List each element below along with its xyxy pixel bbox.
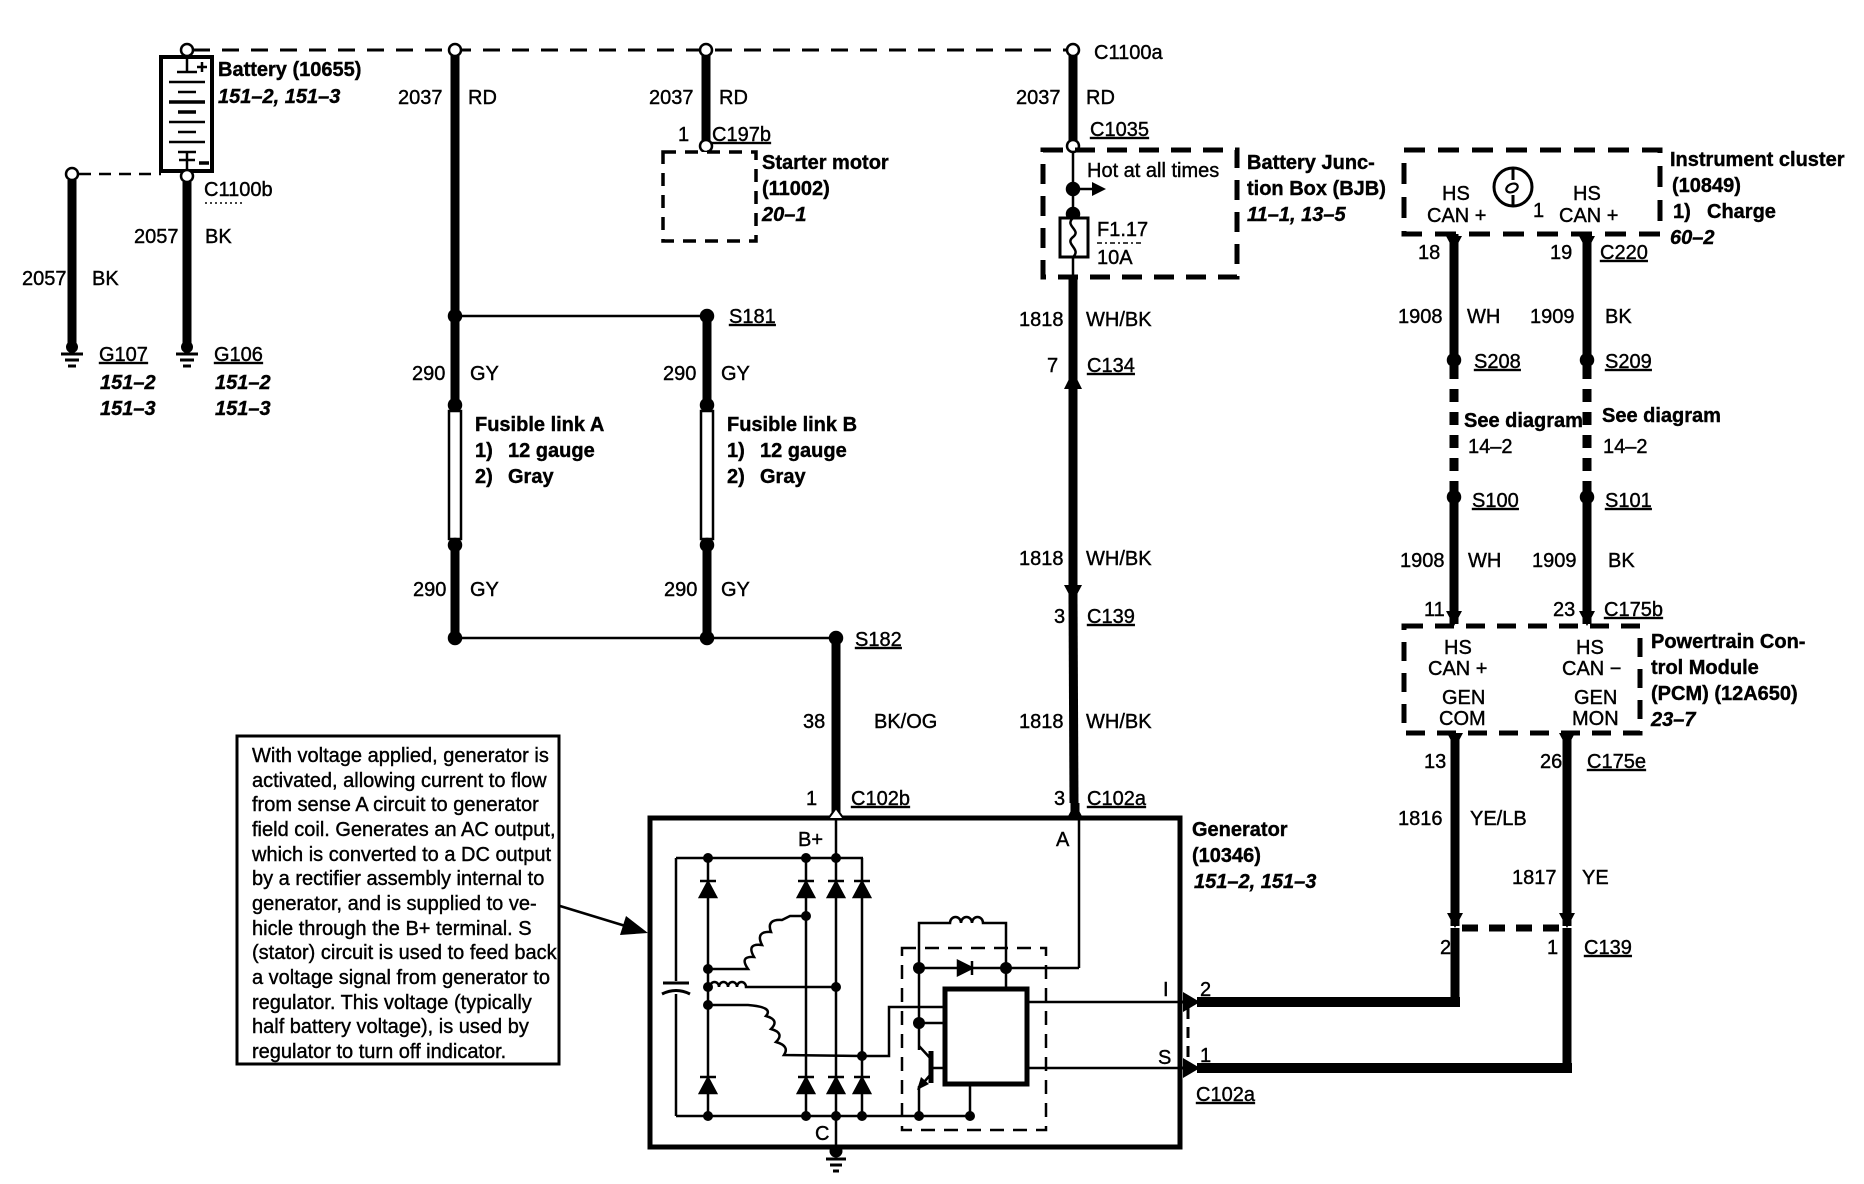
svg-text:C134: C134 — [1087, 355, 1135, 377]
svg-text:1: 1 — [1533, 200, 1544, 222]
stator winding upper phase — [708, 916, 806, 969]
rectifier diodes bottom row — [700, 1077, 870, 1093]
svg-text:regulator to turn off indicato: regulator to turn off indicator. — [252, 1041, 506, 1063]
svg-text:YE: YE — [1582, 867, 1609, 889]
node: field coil right dot — [1000, 962, 1012, 974]
svg-text:S100: S100 — [1472, 490, 1519, 512]
rectifier diodes top row — [700, 881, 870, 897]
wire: battery positive dashed bus — [193, 49, 1067, 52]
svg-text:151–3: 151–3 — [100, 398, 156, 420]
wire: hot at all times arrow — [1073, 188, 1093, 191]
svg-text:HS: HS — [1444, 637, 1472, 659]
diode column 1 — [707, 858, 710, 1116]
svg-text:10A: 10A — [1097, 247, 1133, 269]
wire: emitter to ground rail — [918, 1086, 921, 1116]
svg-text:hicle through the B+ terminal.: hicle through the B+ terminal. S — [252, 918, 532, 940]
svg-text:Battery Junc-: Battery Junc- — [1247, 152, 1375, 174]
svg-text:G106: G106 — [214, 344, 263, 366]
svg-text:19: 19 — [1550, 242, 1572, 264]
svg-text:I: I — [1163, 979, 1169, 1001]
wire: dashed off-page segment below S208 — [1450, 366, 1459, 492]
svg-text:GY: GY — [470, 363, 499, 385]
svg-text:YE/LB: YE/LB — [1470, 808, 1527, 830]
svg-text:14–2: 14–2 — [1468, 436, 1513, 458]
svg-text:See diagram: See diagram — [1464, 410, 1583, 432]
svg-text:151–2, 151–3: 151–2, 151–3 — [218, 86, 340, 108]
svg-text:1): 1) — [727, 440, 745, 462]
wire: BJB internal feed — [1072, 151, 1075, 218]
svg-text:GEN: GEN — [1442, 687, 1485, 709]
wire 1818 WH/BK (C139 to C102a) — [1073, 601, 1074, 803]
wire: tap into regulator left — [919, 1022, 945, 1025]
svg-text:12 gauge: 12 gauge — [508, 440, 595, 462]
wire 38 BK/OG to generator B+ — [832, 638, 841, 814]
fusible link A element — [449, 411, 461, 539]
svg-text:field coil. Generates an AC ou: field coil. Generates an AC output, — [252, 819, 556, 841]
wire: splice link S181 — [455, 315, 707, 318]
node: field coil left dot — [913, 962, 925, 974]
wire 1908 WH to PCM pin 11 — [1450, 497, 1459, 624]
svg-text:(11002): (11002) — [762, 178, 830, 200]
wire: C139 pin 1 down to S wire — [1563, 928, 1572, 1073]
wire: dashed link from left ground wire to battery negative — [79, 173, 161, 176]
svg-text:C102b: C102b — [851, 788, 910, 810]
svg-text:20–1: 20–1 — [761, 204, 807, 226]
node: battery negative terminal circle C1100b — [181, 170, 193, 182]
ground G107 — [61, 343, 83, 367]
wire: regulator ground leg — [969, 1084, 972, 1116]
svg-text:which is converted to a DC out: which is converted to a DC output — [251, 844, 551, 866]
svg-text:Instrument cluster: Instrument cluster — [1670, 149, 1845, 171]
svg-text:1818: 1818 — [1019, 548, 1064, 570]
wire: A sense line — [1078, 818, 1081, 968]
node: S182 splice left junction — [449, 632, 461, 644]
diode column 2 — [805, 858, 808, 1116]
svg-text:WH/BK: WH/BK — [1086, 548, 1152, 570]
svg-text:2): 2) — [475, 466, 493, 488]
node: connector C1035 circle — [1067, 140, 1079, 152]
wire 290 GY lower left — [451, 545, 460, 638]
svg-text:C1035: C1035 — [1090, 119, 1149, 141]
svg-text:1): 1) — [475, 440, 493, 462]
svg-text:C1100a: C1100a — [1094, 42, 1163, 64]
note box — [237, 736, 559, 1064]
svg-text:151–3: 151–3 — [215, 398, 271, 420]
svg-text:Fusible link B: Fusible link B — [727, 414, 857, 436]
connector C139 dashed line — [1462, 925, 1562, 932]
svg-text:Fusible link A: Fusible link A — [475, 414, 604, 436]
node: fusible link B bottom junction — [701, 539, 713, 551]
node: fuse top dot — [1067, 208, 1079, 220]
svg-text:RD: RD — [1086, 87, 1115, 109]
svg-text:1: 1 — [1200, 1045, 1211, 1067]
node: tap circle for starter feed wire — [449, 44, 461, 56]
svg-text:A: A — [1056, 829, 1070, 851]
svg-text:WH/BK: WH/BK — [1086, 711, 1152, 733]
wire: generator I terminal to C139 pin 2 — [1180, 1001, 1198, 1004]
wire: rectifier bottom rail — [676, 1115, 970, 1118]
battery junction box (BJB) dashed outline — [1043, 150, 1237, 277]
svg-text:290: 290 — [413, 579, 446, 601]
svg-text:GEN: GEN — [1574, 687, 1617, 709]
node: tap circle for starter motor branch — [700, 44, 712, 56]
wire: stator tap to regulator (S feedback) — [862, 1007, 945, 1056]
svg-text:HS: HS — [1576, 637, 1604, 659]
svg-text:GY: GY — [721, 579, 750, 601]
connector C102b entry notch at B+ — [828, 808, 844, 819]
svg-text:CAN −: CAN − — [1562, 658, 1621, 680]
svg-text:Hot at all times: Hot at all times — [1087, 160, 1219, 182]
svg-text:3: 3 — [1054, 606, 1065, 628]
svg-text:Battery (10655): Battery (10655) — [218, 59, 361, 81]
ground: generator case C terminal — [826, 1146, 846, 1171]
svg-text:151–2: 151–2 — [100, 372, 156, 394]
node: fusible link A bottom junction — [449, 539, 461, 551]
fusible link B element — [701, 411, 713, 539]
svg-text:CAN +: CAN + — [1559, 205, 1618, 227]
svg-text:BK: BK — [1605, 306, 1632, 328]
svg-text:MON: MON — [1572, 708, 1619, 730]
svg-text:S101: S101 — [1605, 490, 1652, 512]
svg-text:S208: S208 — [1474, 351, 1521, 373]
svg-text:38: 38 — [803, 711, 825, 733]
wire 1818 WH/BK (C134 to C139) — [1069, 388, 1078, 601]
svg-text:WH: WH — [1468, 550, 1501, 572]
svg-text:2037: 2037 — [649, 87, 694, 109]
field coil — [919, 917, 1006, 968]
wire: fuse to BJB bottom — [1072, 257, 1075, 277]
svg-text:2): 2) — [727, 466, 745, 488]
svg-text:290: 290 — [412, 363, 445, 385]
svg-text:GY: GY — [470, 579, 499, 601]
node C1100a circle — [1067, 44, 1079, 56]
wire: splice link S182 — [455, 637, 836, 640]
connector C102a arrowhead pin 3 — [1066, 803, 1084, 820]
svg-text:(stator) circuit is used to fe: (stator) circuit is used to feed back — [252, 942, 558, 964]
diode column 4 — [861, 858, 864, 1116]
wire 1817 YE from PCM pin 26 (C175e) — [1559, 733, 1575, 748]
wire 290 GY upper right — [703, 318, 712, 404]
voltage regulator box — [945, 989, 1027, 1084]
capacitor branch — [675, 858, 678, 981]
wire: regulator I output to edge — [1027, 1001, 1180, 1004]
node S101 — [1581, 491, 1593, 503]
svg-text:half battery voltage), is used: half battery voltage), is used by — [252, 1016, 529, 1038]
wire 1909 BK to PCM pin 23 (C175b) — [1583, 497, 1592, 624]
svg-text:23: 23 — [1553, 599, 1575, 621]
fuse F1.17 10A — [1060, 218, 1088, 257]
svg-text:S209: S209 — [1605, 351, 1652, 373]
node: connector C197b circle pin 1 — [700, 140, 712, 152]
svg-text:290: 290 — [664, 579, 697, 601]
svg-text:BK: BK — [205, 226, 232, 248]
powertrain control module (PCM) dashed box — [1404, 626, 1640, 733]
svg-text:290: 290 — [663, 363, 696, 385]
svg-text:CAN +: CAN + — [1428, 658, 1487, 680]
svg-text:1908: 1908 — [1398, 306, 1443, 328]
wire 1909 BK cluster pin 19 — [1579, 236, 1595, 251]
svg-text:18: 18 — [1418, 242, 1440, 264]
node S100 — [1448, 491, 1460, 503]
svg-text:23–7: 23–7 — [1650, 709, 1696, 731]
node: battery positive terminal circle — [181, 44, 193, 56]
svg-text:BK/OG: BK/OG — [874, 711, 937, 733]
svg-text:BK: BK — [92, 268, 119, 290]
svg-text:2037: 2037 — [398, 87, 443, 109]
svg-text:151–2, 151–3: 151–2, 151–3 — [1194, 871, 1316, 893]
svg-text:by a rectifier assembly intern: by a rectifier assembly internal to — [252, 868, 544, 890]
svg-text:trol Module: trol Module — [1651, 657, 1759, 679]
svg-text:C102a: C102a — [1196, 1084, 1256, 1106]
svg-text:2037: 2037 — [1016, 87, 1061, 109]
svg-text:2: 2 — [1200, 979, 1211, 1001]
node S181 junction — [449, 310, 461, 322]
svg-text:3: 3 — [1054, 788, 1065, 810]
svg-text:(10346): (10346) — [1192, 845, 1261, 867]
wire 2057 BK to G107 — [68, 180, 77, 344]
wire 2037 RD to BJB (C1100a/C1035) — [1069, 55, 1078, 141]
connector C139 arrowhead pin 3 — [1064, 585, 1082, 602]
wire 290 GY lower right — [703, 545, 712, 638]
svg-text:Charge: Charge — [1707, 201, 1776, 223]
generator (10346) box — [650, 818, 1180, 1147]
svg-text:Generator: Generator — [1192, 819, 1288, 841]
svg-text:COM: COM — [1439, 708, 1486, 730]
transistor Q (field driver) — [929, 1051, 934, 1083]
svg-text:B+: B+ — [798, 829, 823, 851]
ground G106 — [176, 343, 198, 367]
svg-text:14–2: 14–2 — [1603, 436, 1648, 458]
wire: regulator S line to edge — [1027, 1067, 1180, 1070]
wire 2037 RD to starter motor — [702, 55, 711, 141]
svg-text:7: 7 — [1047, 355, 1058, 377]
svg-text:C175b: C175b — [1604, 599, 1663, 621]
battery (10655) symbol — [161, 57, 212, 171]
svg-text:1: 1 — [1547, 937, 1558, 959]
svg-text:1908: 1908 — [1400, 550, 1445, 572]
node: fusible link B top junction — [701, 399, 713, 411]
instrument cluster (10849) dashed box — [1404, 150, 1660, 234]
svg-text:With voltage applied, generato: With voltage applied, generator is — [252, 745, 549, 767]
voltage regulator dashed box — [902, 948, 1046, 1130]
svg-text:BK: BK — [1608, 550, 1635, 572]
wire 1908 WH cluster pin 18 — [1446, 236, 1462, 251]
svg-text:RD: RD — [719, 87, 748, 109]
svg-text:26: 26 — [1540, 751, 1562, 773]
connector C102a dashed boundary at generator edge — [1187, 1008, 1190, 1062]
svg-text:(PCM) (12A650): (PCM) (12A650) — [1651, 683, 1798, 705]
svg-text:G107: G107 — [99, 344, 148, 366]
svg-text:HS: HS — [1573, 183, 1601, 205]
svg-text:GY: GY — [721, 363, 750, 385]
node: fusible link A top junction — [449, 399, 461, 411]
note arrow to generator — [560, 906, 632, 928]
svg-text:WH: WH — [1467, 306, 1500, 328]
node S209 — [1581, 354, 1593, 366]
svg-text:C175e: C175e — [1587, 751, 1646, 773]
node: left ground branch top circle — [66, 168, 78, 180]
indicator lamp: charge — [1494, 167, 1532, 207]
svg-text:1: 1 — [678, 124, 689, 146]
node S182 — [830, 632, 842, 644]
svg-text:13: 13 — [1424, 751, 1446, 773]
node S208 — [1448, 354, 1460, 366]
svg-text:1816: 1816 — [1398, 808, 1443, 830]
svg-text:1818: 1818 — [1019, 711, 1064, 733]
svg-text:1909: 1909 — [1530, 306, 1575, 328]
svg-text:1: 1 — [806, 788, 817, 810]
wire: into generator A terminal — [1071, 803, 1080, 818]
wire: rectifier top rail — [676, 857, 863, 860]
svg-text:RD: RD — [468, 87, 497, 109]
node: hot-at-all-times tap dot — [1067, 183, 1079, 195]
svg-text:See diagram: See diagram — [1602, 405, 1721, 427]
svg-text:2: 2 — [1440, 937, 1451, 959]
wire: generator S terminal to C139 pin 1 — [1180, 1067, 1198, 1070]
svg-text:C: C — [815, 1123, 829, 1145]
svg-text:generator, and is supplied to: generator, and is supplied to ve- — [252, 893, 537, 915]
wire: B+ internal bus — [835, 819, 838, 1147]
note: generator description text — [251, 745, 558, 1063]
wire 1818 WH/BK (BJB to C134) — [1069, 277, 1078, 388]
svg-text:(10849): (10849) — [1672, 175, 1741, 197]
svg-text:Gray: Gray — [760, 466, 806, 488]
svg-text:HS: HS — [1442, 183, 1470, 205]
svg-text:activated, allowing current to: activated, allowing current to flow — [252, 770, 547, 792]
svg-text:tion Box (BJB): tion Box (BJB) — [1247, 178, 1386, 200]
svg-text:1909: 1909 — [1532, 550, 1577, 572]
node: regulator sense tap dot — [913, 1017, 925, 1029]
svg-text:C1100b: C1100b — [204, 179, 273, 201]
svg-text:CAN +: CAN + — [1427, 205, 1486, 227]
svg-text:Starter motor: Starter motor — [762, 152, 889, 174]
wire 2057 BK battery to G106 — [183, 182, 192, 344]
svg-text:1818: 1818 — [1019, 309, 1064, 331]
svg-text:a voltage signal from generato: a voltage signal from generator to — [252, 967, 550, 989]
wire 290 GY upper left — [451, 318, 460, 404]
wire 2037 RD feed (x=455) — [451, 55, 460, 316]
starter motor (11002) dashed box — [663, 152, 756, 241]
svg-text:151–2: 151–2 — [215, 372, 271, 394]
svg-text:S181: S181 — [729, 306, 776, 328]
junction dots rectifier — [703, 853, 975, 1121]
wire: field right leg into regulator — [1005, 968, 1008, 989]
wire: dashed off-page segment below S209 — [1583, 366, 1592, 492]
wire 1816 YE/LB from PCM pin 13 (C175e) — [1447, 733, 1463, 748]
field flyback diode — [919, 967, 1079, 970]
svg-text:Gray: Gray — [508, 466, 554, 488]
svg-text:11: 11 — [1424, 599, 1445, 621]
wire: field left leg down to transistor — [918, 968, 921, 1050]
svg-text:12 gauge: 12 gauge — [760, 440, 847, 462]
svg-text:F1.17: F1.17 — [1097, 219, 1148, 241]
svg-text:1): 1) — [1673, 201, 1691, 223]
svg-text:S: S — [1158, 1047, 1171, 1069]
stator winding lower phase — [708, 1005, 862, 1056]
svg-text:WH/BK: WH/BK — [1086, 309, 1152, 331]
svg-text:11–1, 13–5: 11–1, 13–5 — [1247, 204, 1346, 226]
svg-text:C220: C220 — [1600, 242, 1648, 264]
svg-text:2057: 2057 — [134, 226, 179, 248]
svg-text:C102a: C102a — [1087, 788, 1147, 810]
connector C134 arrowhead pin 7 — [1064, 371, 1082, 389]
svg-text:Powertrain Con-: Powertrain Con- — [1651, 631, 1805, 653]
svg-text:2057: 2057 — [22, 268, 67, 290]
stator winding middle phase — [710, 982, 836, 987]
svg-text:C139: C139 — [1584, 937, 1632, 959]
svg-text:C197b: C197b — [712, 124, 771, 146]
svg-text:1817: 1817 — [1512, 867, 1557, 889]
svg-text:from sense A circuit to genera: from sense A circuit to generator — [252, 794, 539, 816]
svg-text:regulator. This voltage (typic: regulator. This voltage (typically — [252, 992, 532, 1014]
wire: C139 pin 2 down to I wire — [1451, 928, 1460, 1007]
svg-text:60–2: 60–2 — [1670, 227, 1715, 249]
svg-text:S182: S182 — [855, 629, 902, 651]
svg-text:C139: C139 — [1087, 606, 1135, 628]
